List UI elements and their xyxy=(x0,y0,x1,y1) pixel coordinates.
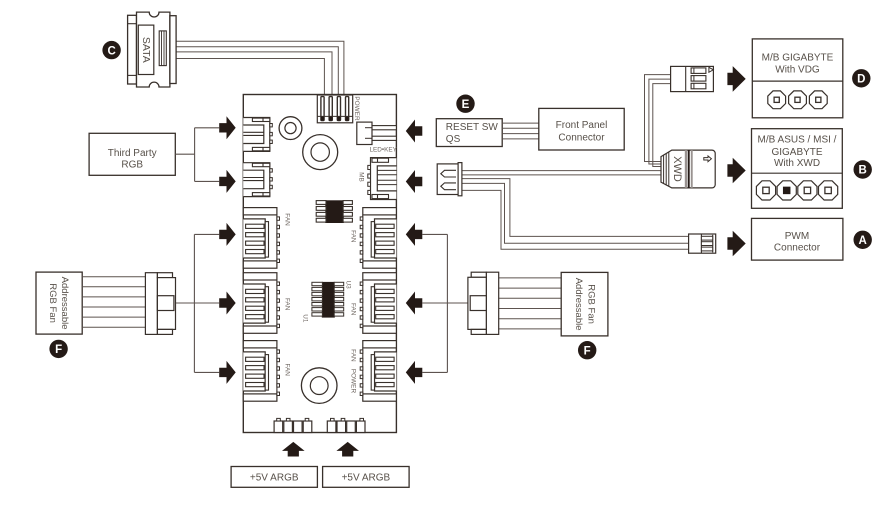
bottom solder pads group 1 xyxy=(274,418,312,432)
arrow into FAN header left 1 xyxy=(219,223,236,246)
label E xyxy=(456,95,474,113)
arrow into FAN header right 1 xyxy=(406,223,423,246)
M/B GIGABYTE With VDG box xyxy=(752,39,843,118)
label F (right) xyxy=(578,341,596,359)
arrow to PWM Connector box xyxy=(727,231,745,257)
+5V ARGB box (left) xyxy=(231,467,317,488)
arrow into FAN header right 3 xyxy=(406,361,423,384)
svg-text:F: F xyxy=(55,344,62,356)
svg-text:Third Party: Third Party xyxy=(108,148,157,159)
wire: left fan bracket xyxy=(176,234,219,372)
arrow to M/B ASUS box xyxy=(727,158,745,184)
svg-text:SATA: SATA xyxy=(140,37,152,63)
SATA power connector xyxy=(128,12,176,87)
arrow into RGB header 2 xyxy=(219,170,236,193)
wire: plug to XWD (2 conductors) xyxy=(462,171,661,175)
label A xyxy=(854,231,872,249)
label D xyxy=(852,69,870,87)
left fan plug xyxy=(145,273,175,335)
svg-text:E: E xyxy=(462,99,470,111)
svg-text:U3: U3 xyxy=(345,281,352,290)
arrow up into pads group 1 xyxy=(282,442,305,457)
FAN header right 1 xyxy=(360,208,396,269)
svg-text:LED•KEY: LED•KEY xyxy=(369,146,397,153)
wire: left fan cable (6 conductors) xyxy=(82,277,146,328)
Third Party RGB box xyxy=(89,133,175,175)
FAN header right 2 xyxy=(360,273,396,334)
svg-text:POWER: POWER xyxy=(353,96,360,121)
wire: plug to PWM (3 conductors) xyxy=(462,179,689,250)
wire: front panel cable (4 conductors) xyxy=(502,123,539,139)
POWER header xyxy=(317,95,352,123)
svg-text:FAN: FAN xyxy=(349,303,356,316)
svg-text:RGB Fan: RGB Fan xyxy=(586,284,597,324)
label C xyxy=(102,41,120,59)
svg-text:XWD: XWD xyxy=(671,156,683,182)
svg-text:PWM: PWM xyxy=(785,231,809,242)
PWM Connector box xyxy=(752,218,843,260)
LED+KEY header xyxy=(357,122,397,144)
svg-text:With XWD: With XWD xyxy=(774,158,820,169)
label B xyxy=(854,160,872,178)
arrow into FAN header left 2 xyxy=(219,292,236,315)
right fan plug xyxy=(468,272,499,334)
MB header xyxy=(368,158,397,200)
PCB hub board xyxy=(243,95,396,433)
Addressable RGB Fan box (right) xyxy=(561,272,608,336)
svg-text:Connector: Connector xyxy=(558,133,605,144)
arrow into FAN header right 2 xyxy=(406,292,423,315)
mounting hole center xyxy=(303,135,338,170)
arrow into MB header xyxy=(406,170,423,193)
svg-text:GIGABYTE: GIGABYTE xyxy=(771,147,822,158)
svg-text:RGB Fan: RGB Fan xyxy=(47,283,58,323)
arrow into LED+KEY header xyxy=(406,120,423,143)
svg-text:MB: MB xyxy=(357,172,364,182)
svg-text:Addressable: Addressable xyxy=(573,278,584,331)
svg-text:Addressable: Addressable xyxy=(59,277,70,330)
svg-text:B: B xyxy=(859,165,867,177)
FAN header left 3 xyxy=(243,341,279,402)
svg-text:D: D xyxy=(857,74,865,86)
wire: right fan bracket xyxy=(422,234,469,372)
arrow up into pads group 2 xyxy=(336,442,359,457)
wire: VDG branch (3 conductors) xyxy=(645,75,671,167)
RESET SW QS box xyxy=(436,119,502,147)
+5V ARGB box (right) xyxy=(323,467,410,488)
IC U2 xyxy=(316,200,352,223)
MB plug xyxy=(437,163,462,196)
Front Panel Connector box xyxy=(539,108,624,150)
svg-text:U1: U1 xyxy=(301,314,308,323)
VDG plug xyxy=(671,66,714,91)
wire: SATA power cable (4 conductors) xyxy=(176,41,344,95)
third-party RGB header 2 xyxy=(243,163,272,197)
svg-text:QS: QS xyxy=(446,134,461,145)
third-party RGB header 1 xyxy=(243,118,272,152)
svg-text:Front Panel: Front Panel xyxy=(556,120,608,131)
svg-text:With VDG: With VDG xyxy=(775,64,820,75)
svg-text:+5V ARGB: +5V ARGB xyxy=(342,473,391,484)
svg-text:F: F xyxy=(584,345,591,357)
label F (left) xyxy=(49,340,67,358)
svg-text:+5V ARGB: +5V ARGB xyxy=(250,473,299,484)
Addressable RGB Fan box (left) xyxy=(36,272,82,334)
FAN header left 2 xyxy=(243,273,279,334)
arrow into FAN header left 3 xyxy=(219,361,236,384)
svg-text:M/B GIGABYTE: M/B GIGABYTE xyxy=(762,52,834,63)
svg-text:M/B ASUS / MSI /: M/B ASUS / MSI / xyxy=(758,134,837,145)
svg-text:FAN: FAN xyxy=(349,349,356,362)
svg-text:RGB: RGB xyxy=(121,159,143,170)
wire: right fan cable (6 conductors) xyxy=(498,278,561,329)
FAN header right 3 xyxy=(360,341,396,402)
svg-text:POWER: POWER xyxy=(349,369,356,394)
arrow into RGB header 1 xyxy=(219,116,236,139)
XWD plug xyxy=(661,150,715,188)
svg-text:FAN: FAN xyxy=(284,213,291,226)
arrow to M/B GIGABYTE box xyxy=(727,66,745,92)
FAN header left 1 xyxy=(243,208,279,269)
svg-text:A: A xyxy=(859,235,867,247)
svg-text:Connector: Connector xyxy=(774,243,821,254)
IC U1/U3 pair xyxy=(312,282,344,318)
wire: third-party RGB bracket xyxy=(175,128,219,182)
svg-text:FAN: FAN xyxy=(349,230,356,243)
PWM plug xyxy=(689,234,716,253)
svg-text:FAN: FAN xyxy=(284,363,291,376)
svg-text:C: C xyxy=(107,45,115,57)
bottom solder pads group 2 xyxy=(327,418,365,432)
mounting hole top-left xyxy=(279,117,302,140)
M/B ASUS / MSI / GIGABYTE With XWD box xyxy=(752,129,843,209)
svg-text:FAN: FAN xyxy=(284,298,291,311)
mounting hole bottom xyxy=(301,368,337,404)
svg-text:RESET SW: RESET SW xyxy=(446,122,499,133)
